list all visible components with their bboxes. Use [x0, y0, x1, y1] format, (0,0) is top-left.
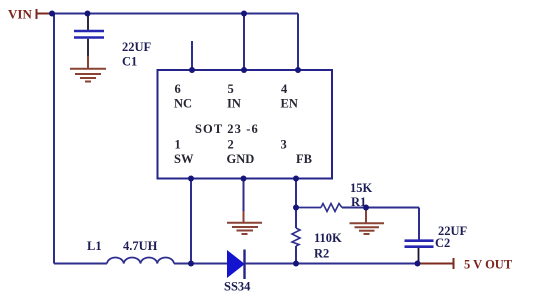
resistor R2 (110K vertical) [292, 228, 300, 246]
svg-text:VIN: VIN [8, 7, 32, 22]
svg-text:C1: C1 [122, 55, 137, 69]
diode D1 SS34 [228, 250, 245, 280]
node pin 5 [241, 67, 247, 73]
node junction at C1 top [85, 11, 91, 17]
wire left vertical [53, 14, 55, 264]
wire GND stub (pin 2) [243, 179, 245, 212]
svg-text:2: 2 [228, 138, 234, 152]
wire SW drop (pin 1) [190, 179, 192, 264]
node pin 4 [295, 67, 301, 73]
wire top rail [52, 13, 298, 15]
svg-text:EN: EN [281, 97, 298, 111]
node pin 1 [188, 176, 194, 182]
svg-text:3: 3 [281, 138, 287, 152]
svg-text:5 V OUT: 5 V OUT [464, 258, 513, 272]
node pin 2 [241, 176, 247, 182]
ground (below R1 right node) [350, 208, 385, 235]
wire bottom rail right [245, 263, 418, 265]
wire NC stub (pin 6) [191, 41, 193, 70]
node VIN terminal [37, 9, 53, 19]
wire IN drop (pin 5) [243, 14, 245, 71]
wire C2 drop [418, 208, 420, 240]
svg-text:1: 1 [175, 138, 181, 152]
svg-text:GND: GND [227, 152, 255, 166]
node 5V OUT terminal [418, 258, 454, 269]
inductor L1 [107, 258, 174, 264]
svg-text:L1: L1 [87, 239, 102, 253]
node FB junction [293, 205, 299, 211]
svg-text:FB: FB [296, 152, 312, 166]
resistor R1 (15K horizontal) [296, 207, 321, 209]
node junction at IN rail [241, 11, 247, 17]
svg-text:SOT 23 -6: SOT 23 -6 [195, 122, 259, 136]
svg-text:6: 6 [175, 82, 181, 96]
svg-text:4: 4 [281, 82, 288, 96]
node R1 right junction [363, 205, 369, 211]
node SW bottom junction [188, 261, 194, 267]
svg-text:IN: IN [227, 97, 241, 111]
svg-text:5: 5 [228, 82, 234, 96]
svg-text:C2: C2 [435, 236, 450, 250]
capacitor C2 [405, 241, 434, 264]
svg-text:110K: 110K [314, 231, 342, 245]
wire EN drop [297, 14, 299, 71]
svg-text:SW: SW [174, 152, 194, 166]
ground (below pin 2) [227, 211, 262, 234]
op-amp U1 (regulator IC SOT 23-6 box) [158, 70, 333, 179]
node C2 bottom junction [415, 261, 421, 267]
capacitor C1 [74, 14, 104, 57]
svg-text:NC: NC [174, 97, 192, 111]
node R2 bottom junction [293, 261, 299, 267]
node pin 3 [293, 176, 299, 182]
node junction at VIN [49, 11, 55, 17]
wire bottom rail left [54, 263, 107, 265]
svg-text:SS34: SS34 [224, 280, 251, 294]
svg-text:R2: R2 [314, 247, 329, 261]
svg-text:15K: 15K [350, 181, 373, 195]
svg-text:4.7UH: 4.7UH [123, 239, 158, 253]
ground (below C1) [70, 56, 106, 82]
wire FB drop (pin 3) [295, 179, 297, 229]
node pin 6 [189, 67, 195, 73]
wire bottom rail middle [174, 263, 228, 265]
svg-text:22UF: 22UF [122, 40, 152, 54]
